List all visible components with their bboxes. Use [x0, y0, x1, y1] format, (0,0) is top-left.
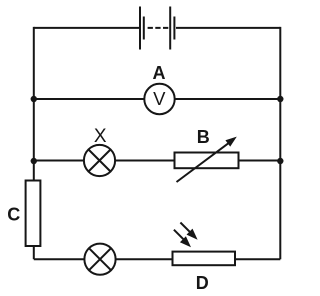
svg-text:D: D [196, 273, 209, 293]
svg-text:A: A [153, 63, 166, 83]
svg-text:V: V [153, 88, 166, 109]
svg-text:B: B [197, 127, 210, 147]
svg-text:C: C [7, 205, 20, 225]
svg-text:X: X [94, 126, 107, 147]
